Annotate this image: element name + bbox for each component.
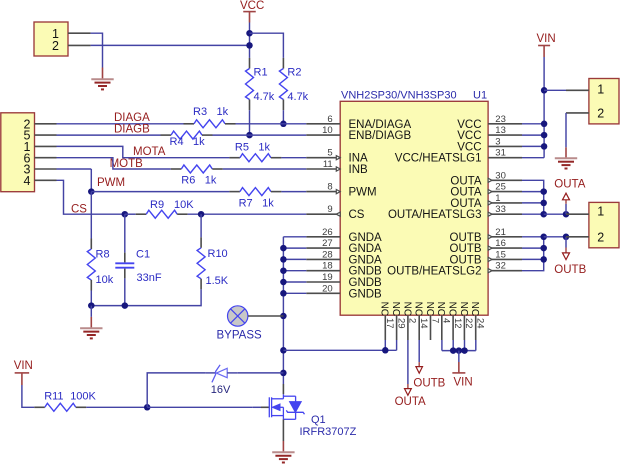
svg-text:15: 15 (495, 249, 506, 260)
wire gate to Q1 (147, 406, 253, 408)
wire NC17/29 to gnd bus (283, 340, 396, 350)
wire DIAGB left (57, 134, 161, 136)
wire pin2 to OUTA arrow (407, 340, 409, 384)
wire VIN bus (522, 57, 544, 158)
connector J1 (2-pin) (34, 22, 91, 56)
junction VCC/R2 (246, 30, 253, 37)
junction gnd row C1 (122, 302, 129, 309)
junction VCC pin13 (541, 132, 548, 139)
svg-text:ENA/DIAGA: ENA/DIAGA (349, 119, 412, 131)
ground (555, 158, 577, 168)
svg-text:17: 17 (384, 318, 395, 329)
svg-text:DIAGA: DIAGA (114, 112, 150, 124)
svg-text:R10: R10 (208, 248, 228, 260)
svg-text:NC: NC (424, 302, 435, 316)
svg-text:9: 9 (327, 204, 332, 215)
svg-text:R1: R1 (254, 66, 268, 78)
svg-text:10k: 10k (96, 274, 114, 286)
svg-text:VIN: VIN (14, 360, 33, 372)
svg-text:30: 30 (495, 170, 506, 181)
svg-text:4: 4 (441, 318, 452, 323)
wire VCC column (249, 23, 251, 58)
wire VIN to R11 (22, 385, 34, 407)
resistor R11 100K (34, 391, 96, 412)
node OUTB (bottom) (413, 362, 445, 389)
svg-text:GNDA: GNDA (349, 254, 383, 266)
svg-text:7: 7 (429, 318, 440, 323)
svg-text:R5: R5 (235, 141, 249, 153)
junction OUTB arrow (563, 234, 570, 241)
svg-text:OUTA: OUTA (450, 187, 481, 199)
svg-text:1: 1 (597, 82, 604, 96)
svg-text:1.5K: 1.5K (206, 275, 229, 287)
svg-text:R8: R8 (96, 249, 110, 261)
svg-text:29: 29 (395, 318, 406, 329)
svg-text:VCC: VCC (457, 119, 481, 131)
resistor R5 1k (229, 141, 281, 161)
svg-text:GNDA: GNDA (349, 232, 383, 244)
junction GND bus/BYPASS (280, 313, 287, 320)
svg-text:U1: U1 (473, 89, 487, 101)
svg-text:31: 31 (495, 148, 506, 159)
node OUTB (right) (554, 237, 586, 276)
svg-text:13: 13 (495, 125, 506, 136)
svg-text:R6: R6 (181, 174, 195, 186)
node OUTA (right) (554, 179, 585, 215)
svg-text:25: 25 (495, 182, 506, 193)
resistor R10 1.5K (197, 214, 229, 289)
svg-text:NC: NC (413, 302, 424, 316)
junction GND bus (280, 290, 287, 297)
svg-text:OUTB: OUTB (450, 243, 482, 255)
resistor R7 1k (229, 188, 281, 210)
svg-text:11: 11 (323, 159, 333, 170)
svg-text:33nF: 33nF (137, 272, 162, 284)
wire CS to R9 (125, 213, 136, 215)
svg-text:VCC: VCC (457, 141, 481, 153)
svg-text:VCC: VCC (240, 0, 264, 12)
wire OUTA to J4 (544, 213, 566, 215)
connector J2 (6-pin) (1, 113, 57, 192)
wire OUTA bus (522, 180, 544, 214)
wire pins 4/12/22/24 (442, 340, 476, 351)
svg-text:R11: R11 (44, 391, 63, 403)
svg-text:OUTA: OUTA (395, 396, 426, 408)
svg-text:OUTB/HEATSLG2: OUTB/HEATSLG2 (387, 266, 481, 278)
node OUTA (bottom) (395, 384, 426, 408)
resistor R2 4.7k (279, 58, 308, 110)
svg-text:NC: NC (401, 302, 412, 316)
U1 bottom pins NC (384, 315, 386, 340)
svg-text:26: 26 (322, 227, 333, 238)
ground (80, 328, 102, 338)
junction CS/C1 (122, 211, 129, 218)
wire MOTB jog (57, 158, 171, 169)
svg-text:NC: NC (390, 302, 401, 316)
wire CS right (188, 213, 307, 215)
resistor R6 1k (171, 165, 223, 186)
junction GND bus (280, 245, 287, 252)
junction OUTA pin33 (540, 211, 547, 218)
IC U1 VNH2SP30/VNH3SP30 (306, 89, 522, 340)
junction OUTB pin21 (540, 234, 547, 241)
junction VCC/J1 (246, 42, 253, 49)
wire pin14 to OUTB arrow (418, 340, 420, 362)
svg-text:22: 22 (463, 318, 474, 329)
connector J3 (2-pin) (566, 79, 619, 124)
svg-text:VCC: VCC (457, 130, 481, 142)
junction gate node (144, 404, 151, 411)
wire PWM middle (91, 191, 229, 193)
junction PWM/R8 (88, 188, 95, 195)
svg-text:20: 20 (322, 283, 333, 294)
svg-text:GNDA: GNDA (349, 243, 383, 255)
svg-text:33: 33 (495, 204, 506, 215)
svg-text:1: 1 (597, 205, 604, 219)
junction NC17 (382, 347, 389, 354)
svg-text:16: 16 (495, 238, 506, 249)
svg-text:6: 6 (327, 114, 332, 125)
power flag VIN (top right) (537, 33, 556, 57)
wire R2 branch (250, 33, 284, 58)
svg-text:28: 28 (322, 249, 333, 260)
svg-text:OUTA: OUTA (450, 175, 481, 187)
wire J1 pin1 to ground (91, 33, 103, 79)
svg-text:NC: NC (379, 302, 390, 316)
junction VIN/J3 (541, 87, 548, 94)
svg-text:10: 10 (322, 125, 333, 136)
connector J4 (2-pin) (566, 202, 619, 247)
wire gnd stub (90, 306, 92, 317)
test point BYPASS (217, 306, 284, 342)
junction OUTA arrow (563, 211, 570, 218)
svg-text:2: 2 (407, 318, 418, 323)
U1 output pin arrows (488, 178, 492, 182)
wire R8 to gnd row (90, 291, 92, 306)
svg-text:NC: NC (458, 302, 469, 316)
resistor R1 4.7k (246, 58, 275, 110)
junction R1/DIAGB (246, 132, 253, 139)
svg-text:4.7k: 4.7k (254, 91, 275, 103)
svg-text:VIN: VIN (454, 376, 473, 388)
U1 CS pin arrow (336, 212, 340, 216)
junction OUTB pin15 (540, 256, 547, 263)
wire INA right (281, 157, 306, 159)
svg-text:MOTB: MOTB (110, 158, 144, 170)
wire PWM jog (57, 168, 92, 170)
wire J1 pin2 to VCC node (91, 44, 250, 46)
svg-text:1k: 1k (205, 174, 217, 186)
resistor R4 1k (161, 131, 213, 148)
wire zener to gnd bus (238, 372, 284, 374)
svg-text:8: 8 (327, 182, 332, 193)
svg-text:19: 19 (322, 272, 333, 283)
svg-text:OUTB: OUTB (450, 232, 482, 244)
wire C1 to gnd row (124, 278, 126, 305)
svg-text:VCC/HEATSLG1: VCC/HEATSLG1 (395, 153, 482, 165)
svg-text:23: 23 (495, 114, 506, 125)
svg-text:OUTB: OUTB (450, 254, 482, 266)
wire gate node up to zener (147, 373, 206, 407)
junction CS/R10 (198, 211, 205, 218)
zener diode 16V (206, 365, 238, 396)
power flag VCC (240, 0, 264, 23)
svg-text:ENB/DIAGB: ENB/DIAGB (349, 130, 412, 142)
svg-text:GNDB: GNDB (349, 288, 383, 300)
junction R2/DIAGA (280, 121, 287, 128)
svg-text:GNDB: GNDB (349, 266, 383, 278)
wire DIAGA left (57, 123, 184, 125)
wire OUTB bus (522, 237, 544, 271)
svg-text:INA: INA (349, 153, 369, 165)
svg-text:4.7k: 4.7k (287, 91, 308, 103)
svg-text:10K: 10K (174, 199, 194, 211)
wire R10 to gnd row (91, 289, 201, 305)
svg-text:4: 4 (24, 174, 31, 188)
wire J3 pin1 to VIN bus (544, 89, 566, 91)
U1 right pins (488, 123, 522, 125)
svg-text:27: 27 (322, 238, 333, 249)
svg-text:OUTA/HEATSLG3: OUTA/HEATSLG3 (388, 209, 482, 221)
wire MOTA jog (57, 146, 230, 157)
resistor R9 10K (136, 199, 195, 218)
wire R2 to DIAGA (282, 110, 284, 124)
svg-text:12: 12 (452, 318, 463, 329)
svg-text:DIAGB: DIAGB (114, 123, 150, 135)
svg-text:2: 2 (52, 39, 59, 53)
svg-text:14: 14 (418, 318, 429, 329)
svg-text:1k: 1k (262, 198, 274, 210)
svg-text:VIN: VIN (537, 33, 556, 45)
wire CS jog (57, 180, 125, 214)
svg-text:Q1: Q1 (311, 414, 326, 426)
wire INB right (223, 168, 306, 170)
power flag VIN (left) (14, 360, 33, 385)
junction GND bus/zener (280, 370, 287, 377)
wire R1 to DIAGB (249, 110, 251, 135)
svg-text:INB: INB (349, 164, 369, 176)
wire GNDA/GNDB bus (283, 237, 306, 384)
U1 left pins (306, 123, 340, 125)
svg-text:1k: 1k (193, 136, 205, 148)
svg-text:16V: 16V (211, 384, 231, 396)
svg-text:CS: CS (349, 209, 365, 221)
svg-text:R7: R7 (239, 198, 253, 210)
power flag VIN (bottom) (452, 351, 472, 389)
junction GND bus (280, 279, 287, 286)
ground (91, 79, 113, 89)
svg-text:MOTA: MOTA (133, 146, 166, 158)
svg-text:1: 1 (495, 193, 500, 204)
ground (272, 452, 294, 462)
svg-text:NC: NC (469, 302, 480, 316)
U1 input pin arrows (336, 156, 340, 160)
svg-text:C1: C1 (136, 249, 150, 261)
junction pin22 (461, 347, 468, 354)
junction pin12 (450, 347, 457, 354)
junction OUTA pin1 (540, 200, 547, 207)
svg-text:PWM: PWM (97, 177, 125, 189)
resistor R3 1k (184, 106, 236, 128)
svg-text:OUTB: OUTB (413, 377, 445, 389)
svg-text:2: 2 (597, 230, 604, 244)
svg-text:GNDB: GNDB (349, 277, 383, 289)
junction GND bus (280, 267, 287, 274)
junction GND bus (280, 256, 287, 263)
transistor Q1 IRFR3707Z (253, 384, 357, 438)
wire J3 pin2 to ground (565, 113, 567, 158)
svg-text:R2: R2 (287, 66, 301, 78)
svg-text:24: 24 (475, 318, 486, 329)
svg-text:R3: R3 (193, 106, 207, 118)
wire Q1 source to ground (282, 419, 284, 452)
junction gnd row R8 (88, 302, 95, 309)
svg-text:R4: R4 (170, 136, 184, 148)
svg-text:100K: 100K (70, 391, 96, 403)
svg-text:5: 5 (327, 148, 332, 159)
junction OUTA pin25 (540, 188, 547, 195)
junction OUTB pin16 (540, 245, 547, 252)
svg-text:OUTA: OUTA (554, 179, 585, 191)
wire PWM right (281, 191, 306, 193)
resistor R8 10k (87, 192, 113, 291)
svg-text:21: 21 (495, 227, 506, 238)
wire OUTB to J4 (544, 236, 566, 238)
svg-text:OUTB: OUTB (554, 264, 586, 276)
junction GND bus/NC17 (280, 347, 287, 354)
svg-text:1k: 1k (217, 106, 229, 118)
svg-text:VNH2SP30/VNH3SP30: VNH2SP30/VNH3SP30 (341, 89, 457, 101)
svg-text:IRFR3707Z: IRFR3707Z (300, 426, 357, 438)
svg-text:32: 32 (495, 261, 506, 272)
svg-text:R9: R9 (150, 199, 164, 211)
junction VCC pin23 (541, 121, 548, 128)
capacitor C1 33nF (115, 214, 162, 284)
svg-text:BYPASS: BYPASS (217, 329, 262, 341)
svg-text:OUTA: OUTA (450, 198, 481, 210)
svg-text:PWM: PWM (349, 187, 377, 199)
svg-text:3: 3 (495, 136, 500, 147)
junction VIN tap (456, 347, 463, 354)
wire DIAGA right (236, 123, 307, 125)
svg-text:18: 18 (322, 261, 333, 272)
svg-text:2: 2 (597, 107, 604, 121)
svg-text:NC: NC (447, 302, 458, 316)
svg-text:1k: 1k (258, 141, 270, 153)
wire DIAGB right (213, 134, 307, 136)
wire R11 to gate node (86, 406, 147, 408)
junction VCC pin3 (541, 143, 548, 150)
svg-text:NC: NC (435, 302, 446, 316)
